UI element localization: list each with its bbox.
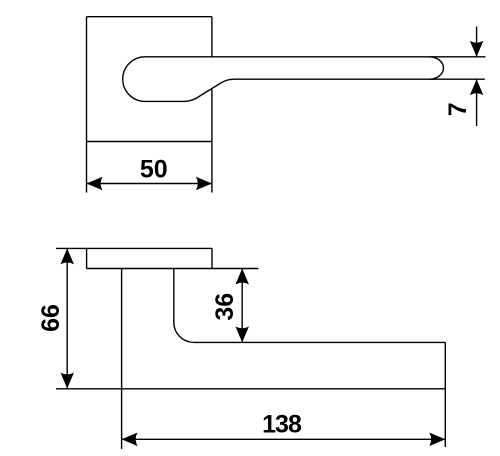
svg-text:66: 66 bbox=[37, 304, 65, 332]
svg-text:7: 7 bbox=[444, 102, 472, 116]
svg-text:138: 138 bbox=[262, 411, 302, 439]
svg-text:50: 50 bbox=[140, 156, 168, 184]
svg-text:36: 36 bbox=[211, 293, 239, 321]
